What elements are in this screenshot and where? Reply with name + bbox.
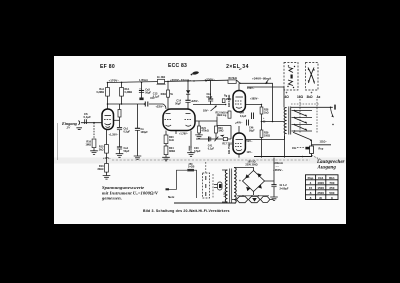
svg-text:50μF: 50μF	[207, 96, 213, 99]
svg-text:+385V~: +385V~	[250, 98, 259, 101]
svg-text:0,5μF: 0,5μF	[194, 150, 201, 153]
svg-text:12V~: 12V~	[247, 151, 253, 154]
svg-text:250: 250	[189, 163, 194, 166]
svg-text:δ: δ	[331, 196, 333, 200]
svg-text:0,2MΩ: 0,2MΩ	[96, 91, 104, 94]
svg-text:R41 75Ω: R41 75Ω	[228, 144, 231, 154]
svg-text:470kΩ: 470kΩ	[202, 130, 209, 133]
svg-text:δ: δ	[310, 196, 312, 200]
svg-text:0,5μF: 0,5μF	[124, 131, 131, 134]
svg-text:250: 250	[329, 186, 334, 190]
svg-text:Ausgang: Ausgang	[317, 166, 337, 171]
svg-text:+17V~: +17V~	[103, 156, 111, 160]
svg-text:1kΩ: 1kΩ	[169, 139, 174, 142]
svg-text:EF 80: EF 80	[100, 64, 115, 70]
svg-text:100Ω: 100Ω	[264, 134, 270, 137]
svg-text:Rsp: Rsp	[319, 148, 324, 151]
svg-text:R12-5kΩ lin: R12-5kΩ lin	[216, 112, 229, 114]
svg-text:50μF: 50μF	[249, 130, 255, 133]
svg-text:50μF: 50μF	[175, 103, 181, 106]
svg-text:2kΩ: 2kΩ	[99, 149, 104, 152]
svg-text:3kΩ: 3kΩ	[307, 95, 314, 99]
svg-text:Rk1: Rk1	[329, 176, 335, 180]
svg-text:CH: CH	[292, 146, 296, 150]
svg-text:Lautsprecher: Lautsprecher	[316, 160, 345, 165]
svg-text:4000: 4000	[317, 181, 324, 185]
svg-text:+1,78V~: +1,78V~	[179, 133, 189, 136]
svg-text:500: 500	[329, 191, 334, 195]
svg-text:+230V~: +230V~	[205, 77, 216, 81]
svg-text:1MΩ: 1MΩ	[218, 130, 223, 133]
svg-text:4Ω: 4Ω	[285, 95, 290, 99]
svg-text:2×EL 34: 2×EL 34	[226, 64, 249, 70]
svg-text:100μF: 100μF	[141, 131, 149, 134]
svg-text:1,35mA: 1,35mA	[139, 79, 148, 82]
svg-text:15: 15	[309, 186, 313, 190]
svg-text:1500: 1500	[317, 186, 324, 190]
svg-text:52V~: 52V~	[247, 140, 253, 143]
svg-text:Ck1: Ck1	[318, 176, 324, 180]
svg-text:1MΩ: 1MΩ	[86, 144, 91, 147]
svg-text:+: +	[239, 179, 241, 183]
svg-text:+1,35V~: +1,35V~	[109, 133, 119, 137]
svg-text:700: 700	[329, 181, 334, 185]
svg-text:0,1μF: 0,1μF	[153, 96, 160, 99]
svg-text:0,1μF: 0,1μF	[84, 115, 92, 119]
svg-text:150V~: 150V~	[247, 87, 255, 90]
svg-text:50μF: 50μF	[145, 92, 151, 95]
svg-text:Az: Az	[317, 95, 321, 99]
svg-text:220V 200Ω: 220V 200Ω	[245, 164, 257, 167]
svg-text:Netz: Netz	[168, 195, 175, 199]
svg-text:+170V~: +170V~	[109, 79, 120, 83]
svg-text:16Ω: 16Ω	[297, 95, 304, 99]
svg-text:0,2MΩ: 0,2MΩ	[125, 91, 133, 94]
svg-text:2×50μF: 2×50μF	[280, 187, 289, 191]
svg-text:+40V~: +40V~	[236, 122, 244, 125]
svg-text:+340V~95mA: +340V~95mA	[252, 76, 272, 80]
svg-text:R40 0,5MΩ: R40 0,5MΩ	[228, 95, 231, 107]
svg-text:Spannungsmesswerte: Spannungsmesswerte	[102, 185, 144, 190]
svg-text:δ: δ	[310, 191, 312, 195]
svg-text:380Ω: 380Ω	[169, 150, 175, 153]
svg-text:111Ω~: 111Ω~	[320, 141, 328, 144]
svg-text:+220V~: +220V~	[191, 100, 200, 103]
svg-text:30kΩ: 30kΩ	[97, 168, 103, 171]
svg-text:+350V~: +350V~	[273, 168, 283, 172]
svg-text:18V~: 18V~	[203, 109, 210, 113]
svg-text:1kΩ: 1kΩ	[264, 111, 269, 114]
svg-text:6,3V~: 6,3V~	[224, 190, 227, 197]
svg-text:0,1μF: 0,1μF	[208, 147, 215, 150]
svg-text:gemessen.: gemessen.	[101, 195, 122, 200]
svg-text:R9 5kΩ: R9 5kΩ	[229, 77, 237, 80]
svg-text:10kΩ log: 10kΩ log	[217, 115, 227, 117]
svg-text:Gl 1-2: Gl 1-2	[280, 183, 288, 187]
svg-text:Cl: Cl	[263, 122, 266, 124]
svg-text:0,1μF: 0,1μF	[240, 115, 247, 118]
svg-text:Rsp: Rsp	[308, 176, 314, 180]
svg-text:+225V~: +225V~	[156, 105, 165, 108]
svg-text:Zn 40Ω: Zn 40Ω	[157, 76, 165, 79]
svg-text:2500: 2500	[317, 191, 324, 195]
svg-text:50μF: 50μF	[124, 150, 130, 153]
svg-text:ECC 83: ECC 83	[168, 63, 187, 69]
svg-text:+200V~10mA~: +200V~10mA~	[170, 78, 192, 82]
svg-text:Bild 3. Schaltung des 20-Watt-: Bild 3. Schaltung des 20-Watt-Hi-Fi-Vers…	[143, 209, 230, 213]
svg-text:400Ω: 400Ω	[160, 93, 166, 96]
svg-text:Ck4: Ck4	[240, 111, 245, 114]
svg-text:δt: δt	[319, 196, 322, 200]
